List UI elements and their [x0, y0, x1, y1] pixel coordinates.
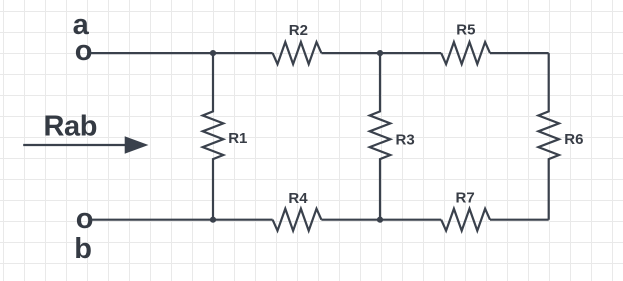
- resistor R3 (vertical branch): [370, 53, 391, 220]
- junction dot top-left: [210, 50, 216, 56]
- resistor R6 (right branch): [538, 53, 559, 220]
- resistor R4: [273, 209, 322, 231]
- junction dot bottom-left: [210, 217, 216, 223]
- svg-text:R4: R4: [288, 190, 308, 207]
- svg-text:Rab: Rab: [44, 110, 98, 142]
- svg-text:R5: R5: [456, 22, 475, 39]
- resistor R5: [441, 42, 490, 64]
- Rab arrow: [23, 144, 127, 146]
- svg-text:R1: R1: [228, 130, 247, 147]
- svg-text:R6: R6: [564, 131, 583, 148]
- svg-text:a: a: [73, 9, 90, 41]
- svg-text:R2: R2: [289, 22, 308, 39]
- wire bottom-right: R7 to corner: [490, 219, 549, 221]
- resistor R2: [273, 42, 322, 64]
- junction dot top-middle: [377, 50, 383, 56]
- junction dot bottom-middle: [377, 217, 383, 223]
- wire bottom-middle: R4 to R7: [321, 219, 441, 221]
- svg-text:b: b: [74, 233, 92, 265]
- svg-text:R3: R3: [396, 131, 415, 148]
- wire bottom-left: b to R4: [91, 219, 273, 221]
- wire top-right: R5 to corner: [490, 52, 549, 54]
- resistor R7: [441, 209, 490, 231]
- wire top-middle: R2 to R5: [321, 52, 441, 54]
- wire top-left: a to R2: [91, 52, 273, 54]
- resistor R1 (vertical branch): [203, 53, 224, 220]
- svg-text:R7: R7: [456, 189, 475, 206]
